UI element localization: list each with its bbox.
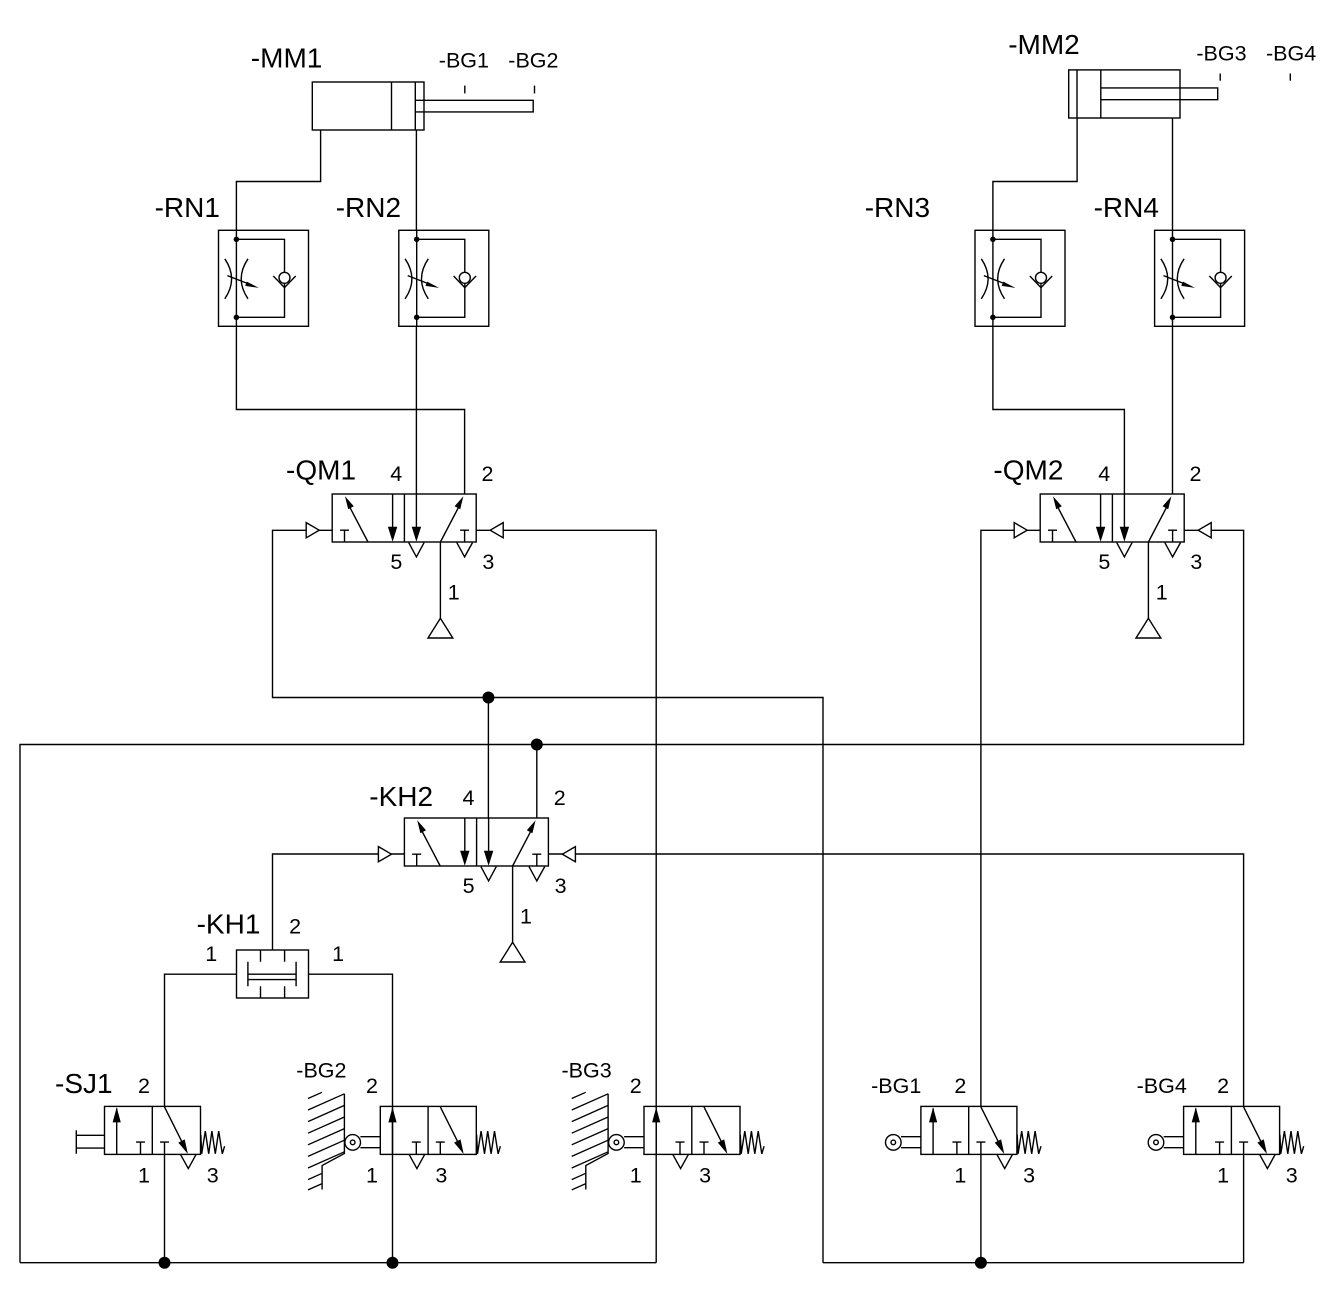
svg-text:-QM2: -QM2 bbox=[993, 455, 1063, 486]
svg-text:1: 1 bbox=[332, 942, 344, 966]
wire MM2 rod port to RN4 bbox=[1172, 118, 1174, 230]
wire left bus line bbox=[20, 1262, 656, 1264]
svg-text:-RN2: -RN2 bbox=[336, 192, 401, 223]
svg-text:-SJ1: -SJ1 bbox=[55, 1068, 113, 1099]
wire SJ1 port 1 to left bus bbox=[164, 1154, 166, 1262]
svg-text:-BG2: -BG2 bbox=[296, 1059, 346, 1083]
junction dot KH2 port 4 net bbox=[482, 692, 494, 704]
cam wall at BG3 bbox=[572, 1092, 608, 1190]
svg-text:-BG4: -BG4 bbox=[1137, 1074, 1187, 1098]
wire QM1 right pilot to BG3 port 2 and BG3 port 1 to left bus bbox=[476, 530, 656, 1262]
wire right bus line bbox=[823, 1262, 1244, 1264]
cylinder MM1 bbox=[251, 43, 533, 131]
junction dot SJ1 on left bus bbox=[159, 1257, 171, 1269]
svg-text:-BG4: -BG4 bbox=[1266, 42, 1316, 66]
wire QM1 left pilot to KH2 port 4 net and right bus bbox=[273, 530, 824, 1262]
roller of BG2 bbox=[345, 1135, 380, 1151]
sensor position tick BG1 bbox=[439, 49, 489, 94]
wire branch to KH2 port 4 bbox=[487, 698, 489, 819]
wire MM2 rear port to RN3 bbox=[993, 118, 1077, 230]
3/2-way roller valve BG2 (actuated) bbox=[296, 1059, 500, 1188]
cylinder MM2 bbox=[1008, 29, 1217, 118]
junction dot KH2 port 2 net bbox=[531, 739, 543, 751]
wire RN2 to QM1 port 4 bbox=[415, 326, 417, 494]
flow control valve RN4 bbox=[1094, 192, 1245, 326]
5/2-way valve KH2 bbox=[369, 781, 575, 962]
wire BG1 port 1 to right bus bbox=[980, 1154, 982, 1262]
sensor position tick BG4 bbox=[1266, 42, 1316, 81]
wire KH1 right port to BG2 port 2 and BG2 port 1 to left bus bbox=[309, 974, 393, 1262]
wire KH2 left pilot to KH1 port 2 bbox=[273, 854, 405, 950]
svg-text:-BG1: -BG1 bbox=[439, 49, 489, 73]
5/2-way valve QM2 bbox=[993, 455, 1211, 639]
wire RN3 to QM2 port 4 bbox=[993, 326, 1125, 494]
sensor position tick BG2 bbox=[508, 49, 558, 94]
wire BG4 port 1 to right bus bbox=[1243, 1154, 1245, 1262]
svg-text:-RN1: -RN1 bbox=[155, 192, 220, 223]
svg-text:-BG2: -BG2 bbox=[508, 49, 558, 73]
flow control valve RN1 bbox=[155, 192, 309, 326]
wire QM2 left pilot to BG1 port 2 bbox=[981, 530, 1040, 1106]
cam wall at BG2 bbox=[308, 1092, 344, 1190]
svg-text:-BG1: -BG1 bbox=[871, 1074, 921, 1098]
svg-text:-MM2: -MM2 bbox=[1008, 29, 1080, 60]
5/2-way valve QM1 bbox=[286, 455, 503, 639]
flow control valve RN3 bbox=[865, 192, 1065, 326]
shuttle valve KH1 bbox=[197, 909, 344, 999]
svg-text:-MM1: -MM1 bbox=[251, 43, 323, 74]
3/2-way roller valve BG3 (actuated) bbox=[562, 1059, 765, 1188]
3/2-way valve SJ1 with plunger bbox=[55, 1068, 225, 1188]
svg-text:-KH1: -KH1 bbox=[197, 909, 261, 940]
wire KH1 left port to SJ1 port 2 bbox=[165, 974, 237, 1106]
junction dot BG2 on left bus bbox=[387, 1257, 399, 1269]
roller of BG4 bbox=[1148, 1135, 1183, 1151]
flow control valve RN2 bbox=[336, 192, 489, 326]
svg-text:-KH2: -KH2 bbox=[369, 781, 433, 812]
svg-text:-RN3: -RN3 bbox=[865, 192, 930, 223]
wire QM2 right pilot to KH2 port 2 net and left bus bbox=[20, 530, 1244, 1262]
svg-text:-BG3: -BG3 bbox=[1196, 42, 1246, 66]
svg-text:-QM1: -QM1 bbox=[286, 455, 356, 486]
sensor position tick BG3 bbox=[1196, 42, 1246, 81]
wire MM1 rod port to RN2 bbox=[415, 130, 417, 230]
roller of BG3 bbox=[609, 1135, 644, 1151]
wire KH2 right pilot to BG4 port 2 bbox=[548, 854, 1243, 1106]
svg-text:2: 2 bbox=[289, 915, 301, 939]
wire RN1 to QM1 port 2 bbox=[236, 326, 464, 494]
svg-text:-RN4: -RN4 bbox=[1094, 192, 1159, 223]
junction dot BG1 on right bus bbox=[975, 1257, 987, 1269]
wire branch to KH2 port 2 bbox=[536, 745, 538, 819]
wire MM1 rear port to RN1 bbox=[236, 130, 320, 230]
3/2-way roller valve BG1 bbox=[871, 1074, 1041, 1188]
svg-text:1: 1 bbox=[205, 942, 217, 966]
roller of BG1 bbox=[886, 1135, 921, 1151]
wire RN4 to QM2 port 2 bbox=[1172, 326, 1174, 494]
svg-text:-BG3: -BG3 bbox=[562, 1059, 612, 1083]
3/2-way roller valve BG4 bbox=[1137, 1074, 1304, 1188]
